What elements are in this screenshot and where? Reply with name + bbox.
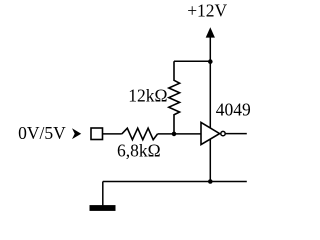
power arrow +12V xyxy=(206,27,215,37)
wire: R2 to gate input xyxy=(158,133,201,135)
input signal arrow xyxy=(72,128,81,139)
output wire xyxy=(226,133,247,135)
svg-text:12kΩ: 12kΩ xyxy=(128,86,167,106)
bottom ground rail xyxy=(103,181,247,183)
ground lead xyxy=(102,182,104,206)
wire: +12V vertical rail xyxy=(209,37,211,182)
wire: top branch to R1 xyxy=(174,60,210,62)
svg-text:+12V: +12V xyxy=(187,1,227,21)
inverter output bubble xyxy=(221,131,225,135)
svg-text:0V/5V: 0V/5V xyxy=(18,123,66,143)
inverter U1 4049 triangle xyxy=(201,122,220,144)
resistor R1 12k (vertical) xyxy=(169,61,180,134)
input terminal box xyxy=(91,128,103,140)
svg-text:6,8kΩ: 6,8kΩ xyxy=(117,140,161,160)
junction node: +12V rail / R1 top xyxy=(208,59,213,64)
svg-text:4049: 4049 xyxy=(216,99,251,119)
junction node: rail / ground xyxy=(208,179,213,184)
wire: box to R2 xyxy=(103,133,122,135)
junction node: R1 bottom / input net xyxy=(172,132,177,137)
resistor R2 6,8k (horizontal) xyxy=(122,128,158,140)
ground bar xyxy=(90,205,116,211)
